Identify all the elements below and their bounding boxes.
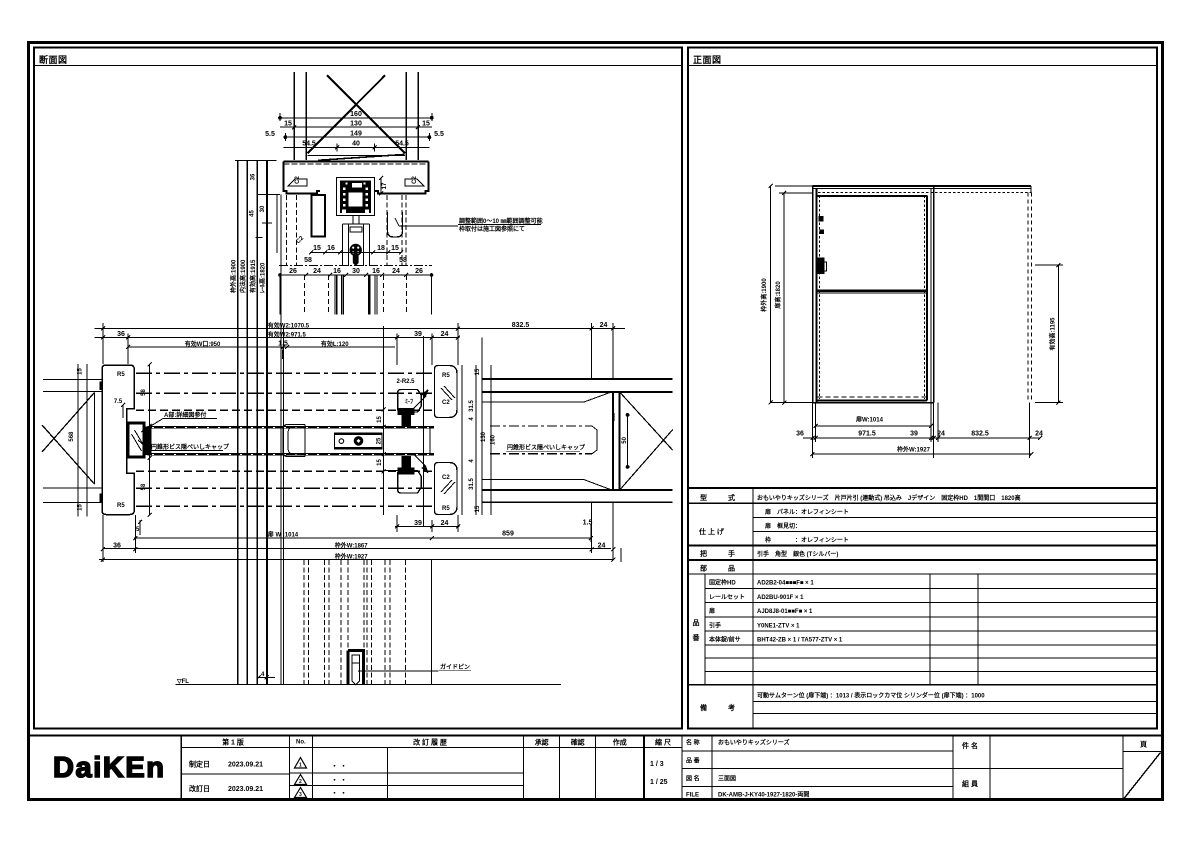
- rev triangle 1: [295, 758, 307, 769]
- door handle recess: [283, 424, 305, 456]
- right dashed studs: [386, 195, 388, 266]
- svg-text:24: 24: [1035, 431, 1043, 438]
- svg-text:可動サムターン位 (扉下端) ：1013 / 表示ロックカマ: 可動サムターン位 (扉下端) ：1013 / 表示ロックカマ位 シリンダー位 (…: [757, 692, 985, 700]
- kenmei row line: [990, 768, 1123, 770]
- handle dot upper: [818, 216, 823, 222]
- row 框見切 bottom: [753, 531, 1157, 533]
- svg-text:36: 36: [117, 331, 125, 338]
- svg-text:24: 24: [441, 331, 449, 338]
- latch leader arrow top: [413, 390, 428, 409]
- door leaf plan: [148, 427, 435, 454]
- dim line 36 971.5 39 24 832.5 24: [803, 437, 1040, 439]
- plan bottom dims 39 24: [99, 503, 621, 562]
- leader A部詳細図: [141, 419, 217, 433]
- svg-text:有効高:1915: 有効高:1915: [249, 259, 257, 293]
- hanger white voids: [342, 183, 369, 214]
- svg-text:制定日: 制定日: [189, 760, 210, 769]
- latch guide line: [422, 336, 424, 527]
- head rail outer channel: [284, 162, 429, 194]
- open rail dashed right: [1027, 193, 1029, 403]
- row 仕上げ bottom: [688, 545, 1157, 547]
- svg-text:36: 36: [113, 543, 121, 550]
- col no right: [312, 736, 314, 800]
- svg-text:本体錠/前サ: 本体錠/前サ: [709, 636, 741, 644]
- rail top hatch line: [284, 163, 429, 165]
- door slot end: [429, 427, 431, 454]
- svg-text:有効高:1195: 有効高:1195: [1049, 317, 1057, 351]
- TITLEBLOCK: [28, 736, 1163, 800]
- svg-text:15: 15: [78, 504, 84, 511]
- dim line 950 / 1.5 / 120 row: [128, 346, 395, 348]
- wall dashed lines upper: [136, 373, 434, 506]
- dim line 36 / 971.5 / 39 / 24 row: [95, 337, 460, 339]
- svg-text:扉: 扉: [708, 607, 715, 615]
- svg-text:5.5: 5.5: [265, 131, 275, 138]
- svg-text:作成: 作成: [613, 738, 627, 747]
- svg-text:17: 17: [382, 182, 388, 189]
- table top line: [688, 487, 1157, 489]
- jamb inner dim line 58-58: [148, 363, 152, 518]
- svg-text:枠外W:1867: 枠外W:1867: [335, 541, 369, 549]
- wall X brace: [327, 75, 405, 153]
- svg-text:3: 3: [299, 792, 302, 798]
- svg-text:扉W:1014: 扉W:1014: [855, 416, 884, 424]
- svg-text:ﾚｰﾙ高:1820: ﾚｰﾙ高:1820: [259, 262, 267, 293]
- row パネル bottom: [753, 517, 1157, 519]
- dim line 15-130-15: [280, 126, 432, 128]
- svg-text:16: 16: [333, 268, 341, 275]
- svg-text:第 1 版: 第 1 版: [222, 738, 244, 747]
- col namelabel right: [711, 736, 713, 800]
- svg-text:固定枠HD: 固定枠HD: [709, 579, 736, 587]
- svg-text:おもいやりキッズシリーズ 片戸片引 (連動式) 吊込み Jデ: おもいやりキッズシリーズ 片戸片引 (連動式) 吊込み Jデザイン 固定枠HD …: [757, 494, 1021, 502]
- FRONTVIEW: [813, 186, 1032, 403]
- svg-text:C2: C2: [295, 176, 301, 184]
- guide pin leader: [358, 670, 439, 672]
- svg-text:R5: R5: [117, 372, 125, 378]
- svg-text:枠 ：オレフィンシート: 枠 ：オレフィンシート: [765, 536, 849, 544]
- svg-text:1 / 25: 1 / 25: [650, 779, 668, 786]
- svg-text:2023.09.21: 2023.09.21: [228, 786, 263, 793]
- scale header underline: [644, 746, 682, 748]
- svg-text:BHT42-ZB × 1 / TA577-ZTV × 1: BHT42-ZB × 1 / TA577-ZTV × 1: [757, 638, 843, 644]
- lock case: [817, 258, 824, 275]
- svg-text:R5: R5: [117, 503, 125, 509]
- svg-text:枠外高:1900: 枠外高:1900: [760, 278, 768, 312]
- svg-text:手: 手: [728, 549, 735, 558]
- front frame left stile: [812, 186, 814, 403]
- svg-text:扉高:1820: 扉高:1820: [774, 281, 782, 310]
- svg-text:58: 58: [399, 257, 407, 264]
- hinban rows: [705, 587, 1157, 589]
- svg-text:54.5: 54.5: [302, 141, 316, 148]
- right receiver channel: [388, 212, 403, 237]
- left wall section: [42, 364, 102, 517]
- door travel dashed rect: [490, 426, 597, 454]
- pocket jamb small piece bottom: [398, 471, 422, 494]
- front door top: [818, 195, 927, 197]
- door lock body: [334, 433, 382, 449]
- svg-text:36: 36: [251, 173, 257, 180]
- svg-text:式: 式: [728, 493, 735, 502]
- floor line: [175, 684, 561, 686]
- svg-text:832.5: 832.5: [971, 431, 989, 438]
- svg-text:50: 50: [622, 436, 628, 443]
- door clearance dim line: [382, 326, 399, 515]
- svg-text:1: 1: [299, 763, 302, 769]
- svg-text:有効L:120: 有効L:120: [321, 340, 349, 348]
- floor projection verticals: [280, 195, 282, 685]
- svg-text:R5: R5: [442, 373, 450, 379]
- svg-text:A部:詳細図参付: A部:詳細図参付: [164, 411, 206, 419]
- left pocket panel section: [312, 195, 326, 237]
- svg-text:レールセット: レールセット: [709, 594, 745, 601]
- pocket dim 50: [626, 414, 629, 469]
- wall stud left pair: [293, 72, 295, 160]
- svg-text:15: 15: [377, 416, 383, 423]
- svg-text:859: 859: [502, 531, 514, 538]
- door hanger bracket: [350, 227, 362, 232]
- svg-text:C2: C2: [412, 176, 418, 184]
- SPECTABLE: [688, 488, 1157, 729]
- latch leader arrow bottom: [413, 454, 428, 473]
- svg-text:組 員: 組 員: [962, 779, 979, 788]
- svg-text:15: 15: [313, 245, 321, 252]
- svg-text:39: 39: [910, 431, 918, 438]
- door edge receiver: [128, 423, 144, 457]
- hanger body black: [340, 181, 371, 214]
- svg-text:枠取付は施工図参照にて: 枠取付は施工図参照にて: [459, 225, 525, 233]
- svg-text:有効W2:1070.5: 有効W2:1070.5: [268, 321, 310, 329]
- front door mid rail: [818, 290, 927, 292]
- svg-text:1.5: 1.5: [583, 520, 593, 527]
- col dots right: [386, 747, 388, 799]
- svg-text:縮 尺: 縮 尺: [655, 738, 671, 747]
- rev triangle 2: [295, 775, 307, 785]
- left panel frame: [34, 48, 682, 729]
- svg-text:名 称: 名 称: [686, 739, 700, 747]
- svg-text:扉 パネル：オレフィンシート: 扉 パネル：オレフィンシート: [764, 508, 849, 516]
- svg-text:24: 24: [313, 268, 321, 275]
- svg-text:15: 15: [391, 245, 399, 252]
- svg-text:型: 型: [700, 493, 707, 502]
- svg-text:2: 2: [299, 779, 302, 785]
- svg-text:AD2BU-901F × 1: AD2BU-901F × 1: [757, 595, 804, 601]
- dim line 26-24-16-30-16-24-26: [280, 274, 432, 276]
- svg-text:枠外高:1900: 枠外高:1900: [230, 259, 238, 293]
- svg-text:39: 39: [414, 520, 422, 527]
- page diagonal: [1124, 753, 1161, 799]
- svg-text:R5: R5: [442, 506, 450, 512]
- svg-text:▽FL: ▽FL: [176, 679, 189, 685]
- svg-text:54.5: 54.5: [395, 141, 409, 148]
- front door bottom: [818, 396, 927, 398]
- svg-text:15: 15: [377, 459, 383, 466]
- name row lines: [682, 750, 953, 752]
- leader to adjust note: [395, 218, 399, 226]
- wall dashed lines lower: [136, 470, 434, 472]
- left panel title underline: [34, 65, 682, 67]
- pocket liner boards: [482, 392, 611, 489]
- svg-text:15: 15: [78, 368, 84, 375]
- rail inner chamfer left: [288, 179, 307, 186]
- small dim 5: [139, 520, 141, 535]
- qty column separators: [929, 574, 931, 685]
- svg-text:24: 24: [937, 431, 945, 438]
- dim line 枠外W1927: [99, 559, 614, 561]
- dim 4 at floor: [257, 676, 276, 680]
- svg-text:把: 把: [700, 549, 707, 558]
- right panel title underline: [688, 65, 1157, 67]
- svg-text:130: 130: [481, 431, 487, 442]
- leader ビス隠しキャップ left: [138, 440, 223, 451]
- svg-text:頁: 頁: [1140, 741, 1147, 749]
- handle dot lower: [820, 229, 825, 234]
- dim 17 line: [380, 178, 382, 194]
- svg-text:おもいやりキッズシリーズ: おもいやりキッズシリーズ: [718, 739, 790, 747]
- svg-text:・ ・: ・ ・: [331, 763, 347, 770]
- svg-text:30: 30: [260, 205, 266, 212]
- svg-text:円錐形ビス隠ぺいしキャップ: 円錐形ビス隠ぺいしキャップ: [507, 444, 586, 452]
- svg-text:品: 品: [693, 618, 700, 627]
- pocket jamb main piece top: [435, 366, 458, 418]
- svg-text:備: 備: [700, 703, 707, 712]
- svg-text:引手 角型 銀色 (Tシルバー): 引手 角型 銀色 (Tシルバー): [757, 550, 838, 558]
- svg-text:18: 18: [377, 245, 385, 252]
- svg-text:・ ・: ・ ・: [331, 777, 347, 784]
- header underline: [181, 746, 644, 748]
- svg-text:58: 58: [141, 483, 147, 490]
- col DAIKEN right: [180, 736, 182, 800]
- underline: [506, 450, 580, 452]
- svg-text:円錐形ビス隠ぺいしキャップ: 円錐形ビス隠ぺいしキャップ: [151, 443, 230, 451]
- svg-text:832.5: 832.5: [512, 322, 530, 329]
- left jamb: [102, 365, 134, 515]
- svg-text:24: 24: [598, 543, 606, 550]
- col namecontent right: [952, 736, 954, 800]
- pocket brace arrow: [620, 392, 673, 489]
- svg-text:36: 36: [796, 431, 804, 438]
- wall X brace left: [42, 392, 95, 452]
- pocket end post: [613, 392, 620, 490]
- rail inner chamfer right: [405, 179, 424, 186]
- svg-text:26: 26: [415, 268, 423, 275]
- svg-text:改 訂 履 歴: 改 訂 履 歴: [413, 738, 447, 747]
- dim line 扉W1014 / 859: [134, 537, 591, 539]
- svg-text:ﾐ-ﾌ: ﾐ-ﾌ: [405, 399, 413, 406]
- svg-text:有効W2:971.5: 有効W2:971.5: [268, 330, 307, 338]
- col page left: [1122, 736, 1124, 800]
- col kenmei right: [989, 736, 991, 800]
- label column separator: [752, 488, 754, 729]
- rev triangle 3: [295, 788, 307, 798]
- svg-text:C2: C2: [442, 475, 450, 481]
- pocket dim verticals: [462, 365, 491, 515]
- page header underline: [1123, 750, 1163, 752]
- svg-text:24: 24: [441, 520, 449, 527]
- hanger unit: [337, 178, 375, 216]
- SECTION-PLAN: [95, 323, 625, 379]
- svg-text:7.5: 7.5: [114, 399, 123, 405]
- jamb anchor bar bottom: [100, 494, 104, 503]
- svg-text:40: 40: [352, 141, 360, 148]
- svg-text:内法高:1900: 内法高:1900: [239, 259, 247, 293]
- jamb anchor bar top: [100, 382, 104, 391]
- right panel frame: [688, 48, 1157, 729]
- svg-text:FILE: FILE: [686, 793, 699, 799]
- svg-text:2-R2.5: 2-R2.5: [397, 379, 416, 385]
- svg-text:130: 130: [350, 121, 362, 128]
- col rireki right: [523, 736, 525, 800]
- svg-text:15: 15: [284, 121, 292, 128]
- svg-text:58: 58: [141, 389, 147, 396]
- dim line 15-16-18-15: [310, 252, 401, 254]
- row 部品 bottom: [688, 573, 1157, 575]
- col shonin right: [559, 736, 561, 800]
- svg-text:C2: C2: [442, 400, 450, 406]
- svg-text:品 番: 品 番: [686, 757, 701, 765]
- svg-text:24: 24: [392, 268, 400, 275]
- svg-text:AD2B2-04■■■F■ × 1: AD2B2-04■■■F■ × 1: [757, 581, 814, 587]
- dim line 1014: [816, 425, 932, 427]
- seitei/kaitei separator: [181, 773, 289, 775]
- col scale right: [681, 736, 683, 800]
- end post anchor: [612, 413, 615, 421]
- label underline: [439, 670, 471, 672]
- latch tongue top: [398, 408, 415, 427]
- front dims left: [769, 184, 813, 405]
- svg-text:引手: 引手: [709, 622, 721, 630]
- door top channel walls: [342, 224, 344, 266]
- projection lines to plan: [280, 275, 431, 315]
- svg-text:Y0NE1-ZTV × 1: Y0NE1-ZTV × 1: [757, 624, 800, 630]
- front frame right stile: [923, 196, 925, 399]
- svg-text:改訂日: 改訂日: [189, 784, 210, 793]
- door end cap: [145, 427, 152, 456]
- svg-text:有効W口:950: 有効W口:950: [185, 340, 221, 348]
- svg-text:品: 品: [728, 564, 735, 573]
- svg-text:15: 15: [422, 121, 430, 128]
- svg-text:45: 45: [250, 210, 256, 217]
- dim line 160: [280, 117, 432, 119]
- svg-text:25: 25: [376, 437, 382, 444]
- svg-text:971.5: 971.5: [858, 431, 876, 438]
- svg-text:160: 160: [491, 434, 497, 445]
- svg-text:39: 39: [414, 331, 422, 338]
- svg-text:枠外W:1927: 枠外W:1927: [897, 446, 931, 454]
- col 1st-ed right: [289, 736, 291, 800]
- svg-text:15: 15: [475, 368, 481, 375]
- guide pin: [348, 651, 364, 685]
- hanger bolt: [343, 216, 370, 267]
- svg-text:24: 24: [600, 322, 608, 329]
- pocket jamb main piece bottom: [435, 463, 458, 515]
- svg-text:2023.09.21: 2023.09.21: [228, 762, 263, 769]
- left height-dim chain verticals: [235, 161, 280, 685]
- svg-text:ガイドピン: ガイドピン: [440, 663, 470, 671]
- front dims right 有効高: [1035, 263, 1063, 405]
- svg-text:DaiKEn: DaiKEn: [53, 752, 163, 784]
- col kakunin right: [595, 736, 597, 800]
- svg-text:確認: 確認: [571, 738, 585, 747]
- front head rail band: [813, 185, 1031, 187]
- svg-text:正面図: 正面図: [693, 55, 722, 65]
- hinban label separator: [704, 574, 706, 685]
- svg-text:31.5: 31.5: [469, 478, 475, 490]
- col sakusei right: [643, 736, 645, 800]
- latch tongue bottom: [398, 456, 415, 475]
- svg-text:図 名: 図 名: [686, 775, 700, 783]
- svg-text:1 / 3: 1 / 3: [650, 761, 664, 768]
- pocket end extension verticals: [591, 503, 593, 544]
- front bottom dims: [803, 403, 1042, 458]
- hinban group bottom: [688, 684, 1157, 686]
- svg-text:26: 26: [289, 268, 297, 275]
- SECTION-TOP: [279, 72, 434, 160]
- svg-text:58: 58: [304, 257, 312, 264]
- svg-text:断面図: 断面図: [39, 54, 68, 65]
- SECTION-BOTTOM: [281, 195, 432, 685]
- svg-text:枠外W:1927: 枠外W:1927: [335, 553, 369, 561]
- dim line 54.5-40-54.5: [284, 146, 430, 148]
- svg-text:考: 考: [728, 703, 735, 712]
- svg-text:部: 部: [700, 564, 707, 573]
- row 型式 bottom: [688, 502, 1157, 504]
- door roller: [350, 244, 362, 266]
- biko rows: [753, 701, 1157, 703]
- extension verticals top right: [591, 329, 593, 380]
- svg-text:番: 番: [692, 633, 701, 642]
- ceiling runner wedge: [308, 154, 405, 156]
- rev rows: [290, 772, 524, 774]
- svg-text:DK-AMB-J-KY40-1927-1820-両開: DK-AMB-J-KY40-1927-1820-両開: [718, 791, 809, 799]
- svg-text:仕 上 げ: 仕 上 げ: [698, 527, 725, 536]
- svg-text:15: 15: [475, 505, 481, 512]
- svg-text:AJD8J8-01■■F■ × 1: AJD8J8-01■■F■ × 1: [757, 609, 813, 615]
- pocket walls right: [482, 379, 673, 502]
- dim line 149: [285, 136, 429, 138]
- svg-text:件 名: 件 名: [962, 741, 978, 750]
- svg-text:承認: 承認: [535, 738, 549, 747]
- svg-text:三面図: 三面図: [718, 775, 736, 783]
- svg-text:31.5: 31.5: [469, 400, 475, 412]
- svg-text:No.: No.: [296, 740, 306, 746]
- svg-text:160: 160: [350, 111, 362, 118]
- svg-text:149: 149: [350, 131, 362, 138]
- svg-text:16: 16: [327, 245, 335, 252]
- wall stud right pair: [405, 72, 407, 160]
- svg-text:・ ・: ・ ・: [331, 790, 347, 797]
- svg-text:5.5: 5.5: [434, 131, 444, 138]
- svg-text:扉 框見切：: 扉 框見切：: [764, 522, 801, 530]
- dim line 1927: [813, 453, 1032, 455]
- svg-text:調整範囲0～10 ㎜範囲調整可能: 調整範囲0～10 ㎜範囲調整可能: [459, 217, 543, 225]
- centre chain line: [279, 265, 432, 267]
- svg-text:30: 30: [352, 268, 360, 275]
- title block frame: [28, 736, 1163, 800]
- dim line 1070.5 / 832.5 row: [95, 328, 625, 330]
- left pocket dashed studs: [287, 195, 459, 266]
- pocket jamb small piece top: [398, 390, 422, 413]
- svg-text:扉 W :1014: 扉 W :1014: [267, 530, 299, 538]
- svg-text:568: 568: [69, 431, 75, 442]
- row 把手 bottom: [688, 559, 1157, 561]
- svg-text:16: 16: [372, 268, 380, 275]
